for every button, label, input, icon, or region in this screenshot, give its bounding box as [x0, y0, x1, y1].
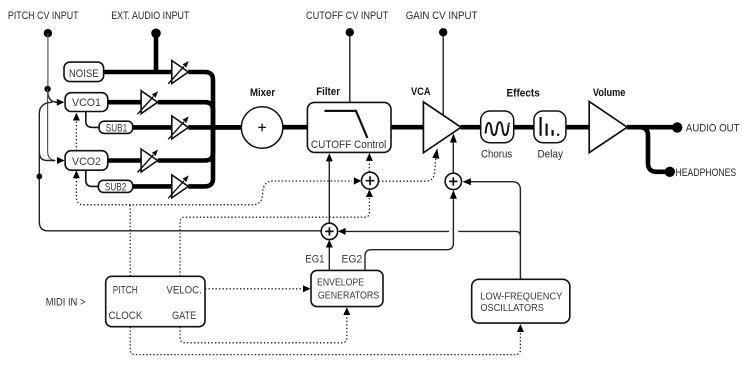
amp vco2 [138, 149, 159, 172]
svg-text:AUDIO OUT: AUDIO OUT [686, 122, 740, 134]
amp vco1 [138, 91, 159, 114]
wire EG2 to plus circle 2 [365, 198, 453, 270]
wire bus from sub2 amp [188, 127, 213, 186]
wire gain cv down [442, 36, 444, 115]
wire vco2 out thick [108, 158, 142, 163]
svg-text:CUTOFF Control: CUTOFF Control [311, 139, 386, 151]
wire bus from noise amp [188, 72, 213, 127]
wire delay to volume thick [565, 125, 589, 130]
dotted pitch feed to VCOs and filter-mod [76, 118, 352, 205]
svg-text:Chorus: Chorus [481, 149, 513, 161]
block SUB1 [99, 121, 133, 133]
arrow into filter bottom dotted [366, 153, 373, 161]
wire plus circle 3 up to filter [328, 161, 330, 223]
block filter [307, 102, 391, 152]
svg-text:OSCILLATORS: OSCILLATORS [480, 303, 544, 314]
wire filter to vca thick [391, 125, 425, 130]
arrow EG2 into plus circle 2 [450, 190, 457, 199]
svg-text:EG2: EG2 [342, 254, 363, 266]
svg-text:Delay: Delay [537, 149, 563, 161]
dotted pitch/clock down to LFO [130, 327, 520, 355]
wire EG1 up to plus circle 3 [328, 247, 330, 270]
wire sub1 out thick [133, 125, 173, 130]
arrow into filter bottom solid [326, 153, 333, 161]
arrow into VCA bottom solid [450, 133, 457, 142]
svg-text:Mixer: Mixer [250, 87, 275, 99]
dotted gate feed up to plus circle 1 [180, 197, 369, 277]
arrow LFO into plus circle 2 [463, 178, 471, 185]
node pitch cv input [44, 29, 52, 37]
dotted midi pitch up from MIDI box [129, 205, 131, 276]
wire LFO up and to plus circle 2 [471, 182, 521, 280]
wire sub2 out thick [133, 184, 173, 189]
svg-text:HEADPHONES: HEADPHONES [676, 167, 737, 179]
wire ext audio thick down [154, 33, 159, 72]
wire bus from sub1 amp [188, 125, 241, 130]
amp noise [168, 61, 189, 84]
svg-text:LOW-FREQUENCY: LOW-FREQUENCY [480, 292, 562, 303]
node audio out [672, 122, 682, 132]
mixer circle [241, 107, 283, 149]
amp sub1 [168, 116, 189, 139]
wire noise out thick [104, 70, 173, 75]
node gain cv input [439, 28, 447, 36]
wire mixer to filter thick [283, 125, 308, 130]
arrow dotted into VCO2 bottom [73, 171, 80, 179]
svg-text:SUB1: SUB1 [106, 123, 128, 135]
dotted from plus circle 1 right to VCA [379, 157, 436, 182]
wire cutoff cv down [349, 36, 351, 102]
svg-text:Volume: Volume [593, 87, 626, 99]
arrow into LFO bottom [517, 324, 524, 332]
arrow into envelope bottom [343, 307, 350, 315]
wire plus circle 2 up to VCA [452, 142, 454, 173]
svg-text:GATE: GATE [172, 310, 197, 322]
arrow dotted into VCA bottom [432, 148, 439, 159]
connector VCO2 to SUB2 [86, 170, 99, 186]
block delay [534, 111, 566, 143]
block NOISE [64, 62, 104, 82]
svg-text:GAIN CV INPUT: GAIN CV INPUT [406, 10, 478, 22]
svg-text:MIDI IN >: MIDI IN > [46, 296, 86, 308]
amp sub2 [168, 175, 189, 198]
block chorus [481, 111, 514, 143]
arrow into VCO2 left [57, 157, 65, 164]
wire pitch branch to VCO1 [48, 89, 58, 102]
wire branch merge into VCO2 arrow [39, 152, 55, 161]
arrow into plus circle 1 left [354, 177, 362, 184]
arrow into VCO1 left [57, 99, 65, 106]
wire vco1 out thick [108, 100, 142, 105]
node headphones [665, 167, 675, 177]
svg-text:VCO1: VCO1 [72, 97, 101, 109]
wire pitch continues to VCO2 [48, 89, 56, 161]
arrow dotted into VCO1 bottom [73, 113, 80, 121]
svg-text:EXT. AUDIO INPUT: EXT. AUDIO INPUT [111, 10, 189, 22]
svg-text:CLOCK: CLOCK [109, 310, 143, 322]
wire headphones branch thick [641, 127, 666, 172]
node junction on left line [36, 174, 42, 180]
arrow EG1 into plus circle 3 [326, 240, 333, 248]
svg-text:VCA: VCA [411, 86, 431, 98]
svg-text:Filter: Filter [316, 86, 340, 98]
plus circle 3 (pitch mod sum) [321, 223, 337, 239]
dotted gate down to envelope bottom [180, 315, 347, 343]
wire bus from vco1 amp [158, 102, 213, 127]
connector VCO1 to SUB1 [86, 112, 99, 128]
block envelope generators [311, 270, 383, 306]
chorus sine icon [486, 122, 510, 135]
block VCO2 [65, 151, 108, 171]
node pitch junction [44, 86, 50, 92]
svg-text:PITCH: PITCH [113, 285, 138, 297]
svg-text:CUTOFF CV INPUT: CUTOFF CV INPUT [306, 10, 389, 22]
wire vca to chorus thick [461, 125, 482, 130]
svg-text:VELOC.: VELOC. [166, 285, 201, 297]
svg-text:EG1: EG1 [305, 254, 324, 266]
wire chorus to delay thick [513, 125, 534, 130]
arrow veloc into envelope box [303, 285, 311, 292]
wire bus from vco2 amp [158, 127, 213, 160]
block VCO1 [65, 93, 108, 112]
svg-text:Effects: Effects [507, 87, 540, 99]
svg-text:GENERATORS: GENERATORS [318, 291, 379, 302]
filter curve [325, 111, 368, 138]
svg-text:PITCH CV INPUT: PITCH CV INPUT [8, 10, 79, 22]
dotted from plus circle 1 up to filter [368, 161, 370, 172]
vca triangle [423, 102, 461, 153]
block low-frequency oscillators [472, 279, 570, 323]
svg-text:SUB2: SUB2 [105, 182, 127, 194]
node cutoff cv input [346, 28, 354, 36]
block midi [106, 276, 205, 326]
plus circle 1 (filter mod sum) [362, 172, 379, 189]
svg-text:NOISE: NOISE [69, 68, 99, 80]
dotted veloc to envelope [205, 288, 303, 290]
volume triangle [589, 102, 627, 153]
arrow LFO into plus circle 3 [338, 228, 346, 235]
svg-text:ENVELOPE: ENVELOPE [317, 277, 364, 288]
plus circle 2 (vca mod sum) [445, 173, 461, 189]
wire pitch cv vertical [47, 33, 49, 88]
wire volume to audio out thick [627, 125, 673, 130]
wire LFO to plus circle 3 [345, 230, 449, 232]
svg-text:VCO2: VCO2 [72, 156, 101, 168]
wire keyboard-track line down left side [39, 102, 321, 231]
arrow into plus circle 1 bottom [366, 189, 373, 197]
wire bus to mixer [213, 125, 242, 130]
delay bars icon [539, 117, 541, 136]
node ext audio input [151, 29, 161, 39]
block SUB2 [98, 180, 132, 192]
